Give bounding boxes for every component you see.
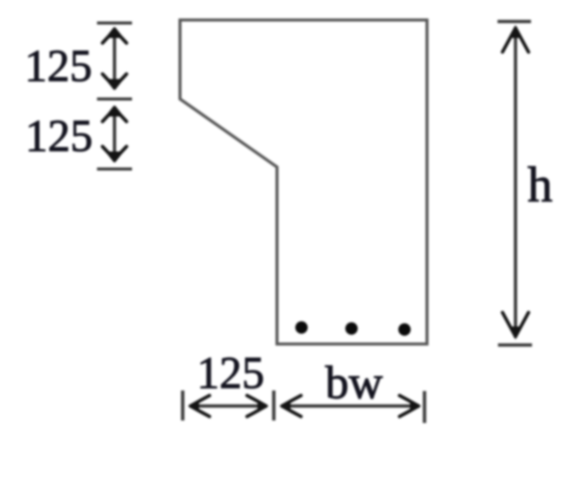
svg-text:h: h <box>528 156 553 212</box>
svg-text:125: 125 <box>25 111 93 161</box>
svg-text:bw: bw <box>325 357 383 409</box>
svg-text:125: 125 <box>25 41 93 91</box>
svg-text:125: 125 <box>197 348 265 398</box>
